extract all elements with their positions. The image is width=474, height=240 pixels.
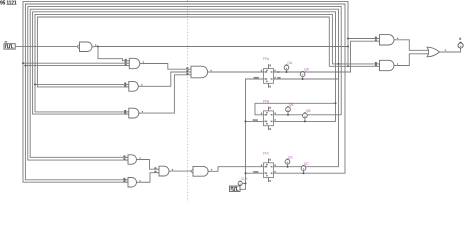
buffer gate U1 (AND, inputs tied to clock) xyxy=(77,42,96,52)
wire A3 output to AND B1 input3 xyxy=(141,75,188,113)
wire net QC' bus (left x25.4, top y4.0, right x344, down to FFC Q') xyxy=(25,4,345,180)
svg-text:CLR: CLR xyxy=(241,177,248,181)
svg-text:QC': QC' xyxy=(304,162,310,166)
probe CLR on clock net xyxy=(238,177,248,185)
AND gate C1 xyxy=(123,155,140,164)
wire bus line1 branch to AND D1 input1 xyxy=(348,38,377,40)
svg-text:QA': QA' xyxy=(304,67,310,71)
probe QC xyxy=(285,155,293,167)
node QC riser junction xyxy=(338,63,340,65)
wire net QB bus (left x27.8, top y6.6, right x341.2, down to FFB Q) xyxy=(28,7,341,161)
wire C4 output (net OUT1 source) to FFC J xyxy=(211,167,264,172)
pin number at OR output xyxy=(445,50,446,51)
AND gate A3 xyxy=(124,108,143,118)
net label OUT1 at FFC CLK xyxy=(253,171,258,173)
AND gate B1 (3-input) xyxy=(186,66,211,78)
AND gate A1 xyxy=(125,58,144,68)
clock source V1 xyxy=(4,44,15,49)
node QC' junction at left vertical xyxy=(24,65,26,67)
buffer gate C4 (AND, inputs tied) xyxy=(190,166,212,176)
svg-text:QB': QB' xyxy=(306,109,312,113)
wire C2 output up to AND C3 input2 xyxy=(139,173,156,183)
wire clock line to bus line1 vertical xyxy=(95,46,348,48)
wire CLK riser x245.5 from FFA CLK down to clock2 source xyxy=(240,79,264,189)
wire B1 output to FFA J xyxy=(210,71,263,73)
node bus line1 branch junction xyxy=(347,38,349,40)
wire A1 output to AND B1 input1 xyxy=(142,64,188,70)
node net6 junction at left vertical xyxy=(34,83,36,85)
probe QA xyxy=(284,61,293,73)
wire OR output to output probe xyxy=(442,48,461,52)
wire QC riser from AND E2 input1 wire down to FFC Q xyxy=(274,64,339,167)
wire net7 bus (left x37.4, top y17.0, right x329.3, to AND E2 input2) xyxy=(37,17,377,87)
svg-text:QB: QB xyxy=(289,103,295,107)
pin label QA on FFA Q wire xyxy=(277,71,279,72)
clock source V2 xyxy=(230,186,241,192)
flip-flop FFB xyxy=(261,100,276,131)
wire C1 output down to AND C3 input1 xyxy=(139,160,156,170)
wire FFA Q to QA riser and AND D1 input2 xyxy=(274,41,378,72)
svg-text:FFC: FFC xyxy=(263,151,270,155)
AND gate C3 xyxy=(154,166,173,176)
svg-text:95 1121: 95 1121 xyxy=(0,0,17,6)
clock source V1 label xyxy=(5,41,8,42)
AND gate D2 xyxy=(375,60,398,70)
wire D1 output to OR gate input1 xyxy=(397,40,425,51)
node clock junction for gate A1 riser xyxy=(97,46,99,48)
page divider dashed line xyxy=(187,0,189,202)
wire clock riser down to gate A1 input1 xyxy=(98,47,127,61)
OR gate E1 xyxy=(425,47,442,57)
AND gate A2 xyxy=(124,81,142,91)
svg-text:QA: QA xyxy=(287,61,293,65)
node junction bus line1 with AND E2 input2 wire xyxy=(347,65,349,67)
probe QB xyxy=(286,103,295,116)
node junction QB' vertical to FFB J xyxy=(335,102,337,104)
flip-flop FFC xyxy=(261,151,276,182)
node CLK riser junction FFC xyxy=(245,172,247,174)
wire A2 output to AND B1 input2 xyxy=(141,72,189,86)
svg-text:QC: QC xyxy=(288,155,294,159)
wire clock source to buffer gate xyxy=(15,45,77,47)
wire CLK branch to FFB CLK xyxy=(246,120,264,122)
wire net6 bus (left x35, top y14.4, right x332.4, to AND E2 input1) xyxy=(35,14,377,112)
pin label QA' on FFA Q' wire xyxy=(277,77,280,78)
wire FFB J feedback from QB' vertical xyxy=(255,103,336,115)
probe QC' xyxy=(301,162,310,174)
AND gate C2 xyxy=(123,178,140,188)
AND gate D1 xyxy=(375,35,398,45)
output probe 2 xyxy=(458,38,463,49)
node QC junction at left vertical xyxy=(22,62,24,64)
wire net QA' bus (left x30.2, top y9.2, right x338.5, down to FFA Q') xyxy=(30,9,338,157)
flip-flop FFA xyxy=(261,57,276,88)
wire C3 output to gate C4 xyxy=(172,170,191,172)
svg-text:FFB: FFB xyxy=(263,100,270,104)
svg-text:FFA: FFA xyxy=(263,57,270,61)
wire CLK branch to FFC CLK xyxy=(246,172,264,174)
wire D2 output to OR gate input2 xyxy=(397,54,425,66)
wire net6 branch to gate A2 input1 xyxy=(35,83,127,85)
probe QB' xyxy=(303,109,312,122)
wire net QB' bus (left x32.6, top y11.8, right x335.5, down to FFB Q') xyxy=(33,12,336,122)
probe QA' xyxy=(300,67,310,80)
net label OUT1 at FFA CLK xyxy=(254,77,259,79)
node CLK riser junction FFB xyxy=(245,120,247,122)
wire net QC branch to gate A1 input2 xyxy=(23,62,127,64)
net label OUT1 at FFB CLK xyxy=(253,119,258,121)
wire net QC' branch to gate A1 input3 xyxy=(25,65,126,67)
node clock line junction with bus line1 vertical xyxy=(347,46,349,48)
wire bus line1 (left vertical x23, top y1.4, right vertical x348 down to AND E2 input2 wire) xyxy=(23,1,348,182)
